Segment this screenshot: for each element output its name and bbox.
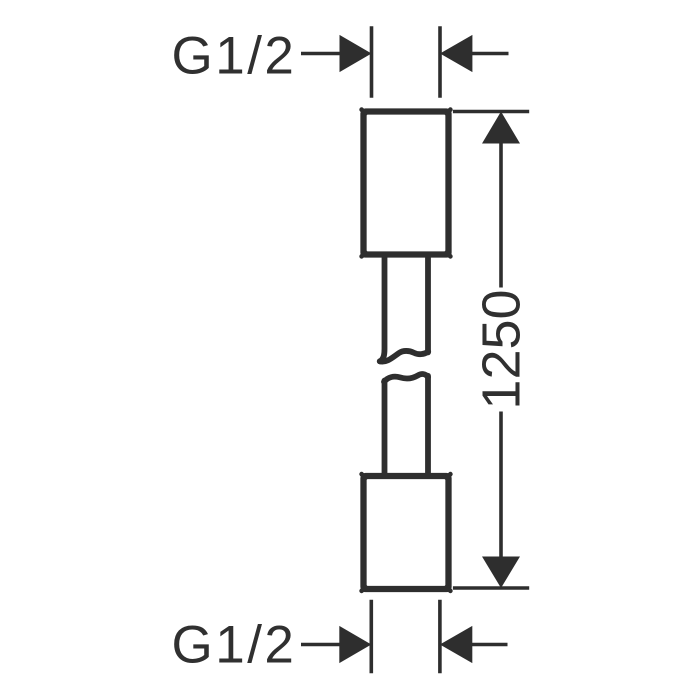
- connector nut top: [362, 110, 451, 257]
- svg-text:G1/2: G1/2: [172, 616, 297, 675]
- extension line bottom-right: [438, 600, 442, 674]
- wire dimension line lower segment: [499, 412, 503, 558]
- wire tail line top: [472, 52, 509, 56]
- extension line right-top: [453, 110, 529, 114]
- extension line top-right: [438, 26, 442, 98]
- arrowhead bottom-left: [339, 626, 371, 663]
- arrowhead top-right: [440, 35, 472, 72]
- arrowhead top-left: [340, 35, 372, 72]
- hose break symbol lower edge: [384, 374, 428, 474]
- extension line top-left: [370, 26, 374, 98]
- wire leader line top: [301, 52, 350, 56]
- wire tail line bottom: [472, 643, 508, 647]
- connector nut bottom: [362, 474, 451, 591]
- arrowhead dim down: [482, 557, 520, 589]
- hose upper segment: [380, 256, 428, 362]
- arrowhead dim up: [482, 112, 520, 144]
- wire dimension line upper segment: [499, 143, 503, 288]
- wire leader line bottom: [301, 643, 350, 647]
- extension line bottom-left: [369, 600, 373, 674]
- svg-text:1250: 1250: [472, 289, 532, 409]
- extension line right-bottom: [453, 586, 529, 590]
- svg-text:G1/2: G1/2: [172, 27, 297, 86]
- arrowhead bottom-right: [440, 626, 472, 663]
